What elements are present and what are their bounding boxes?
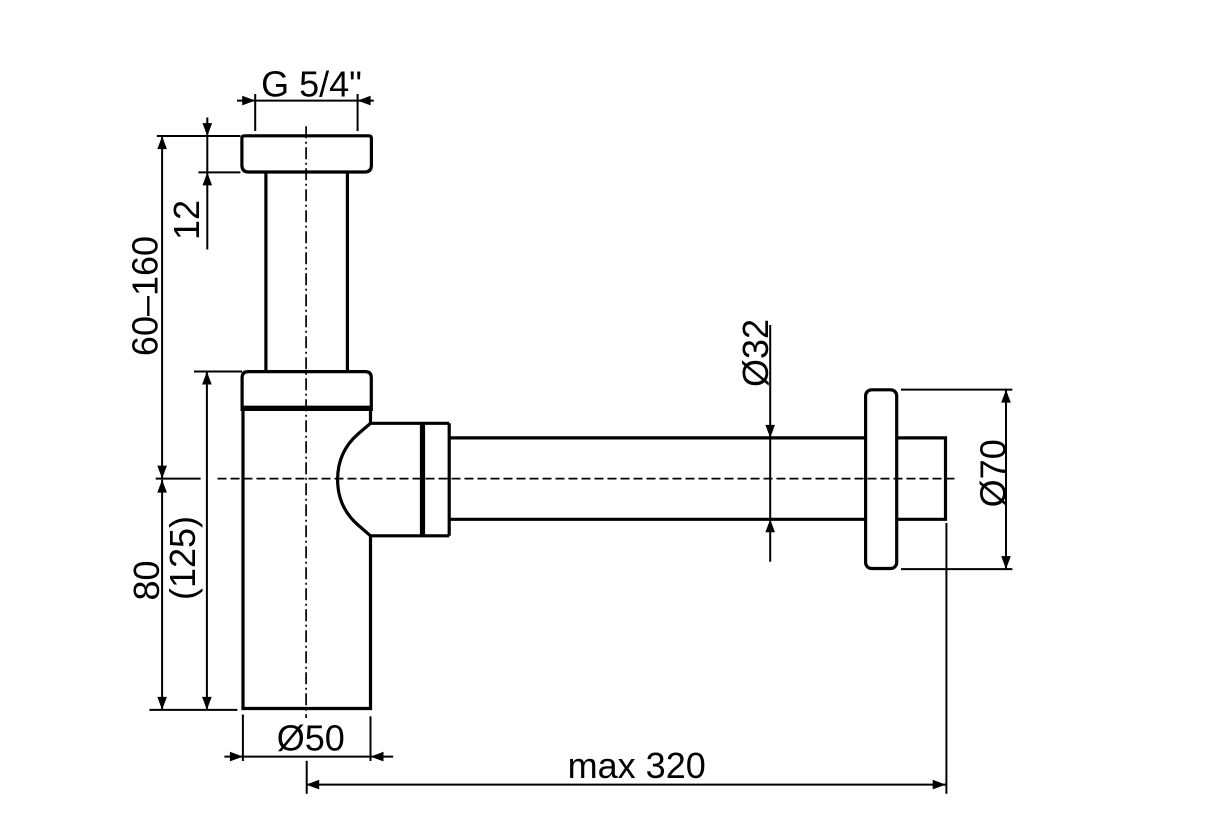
svg-text:Ø32: Ø32 [735, 319, 776, 387]
elbow nut right edge [448, 423, 451, 536]
svg-text:G 5/4": G 5/4" [261, 64, 362, 105]
dimension (125) [206, 372, 208, 710]
wall pipe stub [897, 438, 946, 519]
inlet vertical pipe [264, 172, 267, 372]
thick seam line under union nut [242, 406, 371, 411]
dimension D32 [769, 325, 771, 562]
horizontal outlet pipe [449, 436, 865, 439]
top flange (inlet nut) [242, 136, 372, 172]
dimension D70 [901, 390, 1012, 569]
wall escutcheon flange [866, 390, 897, 569]
dimension D50 [224, 715, 393, 762]
dimension 12 [157, 118, 241, 250]
svg-text:(125): (125) [162, 516, 203, 600]
svg-text:max 320: max 320 [568, 745, 706, 786]
elbow outlet bulge [338, 423, 371, 536]
horizontal centerline of outlet pipe [218, 478, 957, 480]
svg-text:Ø50: Ø50 [277, 718, 345, 759]
body top flange (union nut) [242, 372, 371, 411]
vertical centerline of trap body [305, 126, 307, 718]
svg-text:12: 12 [166, 200, 207, 240]
elbow bottom edge [371, 534, 450, 537]
trap body (cup) [243, 411, 371, 709]
dimension 60-160 [161, 136, 163, 479]
dimension 80 [161, 480, 163, 710]
dimension max 320 [306, 523, 946, 794]
svg-text:Ø70: Ø70 [973, 439, 1014, 507]
svg-text:60–160: 60–160 [125, 236, 166, 356]
elbow top edge [371, 422, 450, 425]
thick elbow joint line [420, 423, 425, 536]
svg-text:80: 80 [126, 560, 167, 600]
dimension G 5/4" [237, 94, 374, 131]
